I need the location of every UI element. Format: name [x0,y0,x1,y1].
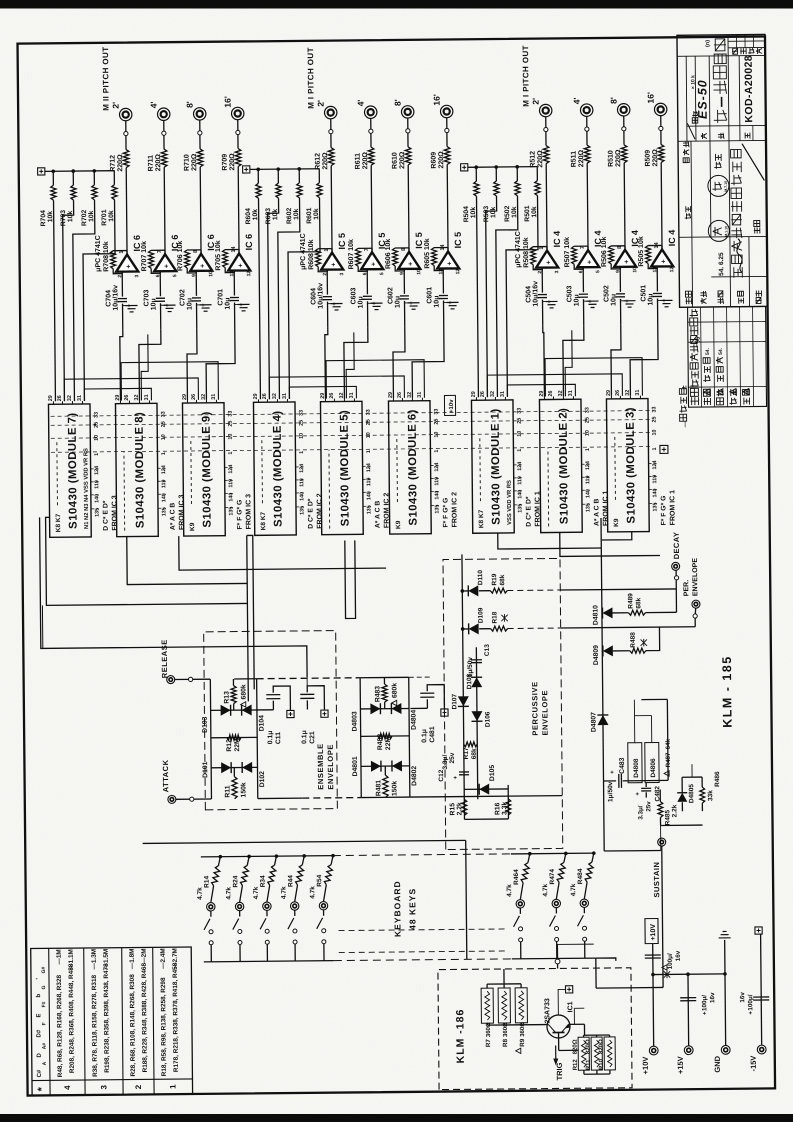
label R504 [463,206,477,223]
diode D109 [463,623,491,634]
junction box [755,927,762,935]
ensemble envelope dashed box [204,631,338,810]
svg-text:FROM IC 2: FROM IC 2 [451,492,458,528]
wire [306,646,308,686]
capacitor C503 10u [579,294,594,303]
svg-text:—1.8M: —1.8M [129,949,136,970]
wire [584,1070,610,1074]
resistor R604 10k [256,169,263,399]
label R512 [530,150,545,168]
svg-text:33: 33 [161,411,167,417]
op-amp IC6 unit 4 [228,245,252,276]
svg-text:S10430 (MODULE 4): S10430 (MODULE 4) [272,410,285,527]
svg-text:8': 8' [609,97,619,104]
svg-text:K9: K9 [395,520,402,529]
svg-text:54.: 54. [718,347,724,355]
label ES-50 [695,79,709,119]
resistor R712 220 [123,150,129,168]
label R14 [197,875,211,899]
wire trunk [602,532,632,540]
triangle mark [516,1048,521,1053]
svg-text:119: 119 [228,479,234,488]
svg-text:D103: D103 [202,716,209,733]
wire [675,570,677,589]
svg-text:D#: D# [36,1029,42,1037]
resistor R708 10k feedback [111,251,128,274]
svg-text:31: 31 [417,392,423,398]
ground [368,303,383,310]
svg-text:R484: R484 [577,868,584,884]
junction box [558,986,573,1015]
svg-text:R11: R11 [586,1059,592,1070]
resistor R607 10k feedback [355,248,372,271]
wire trunk [46,515,248,605]
label GND [713,1055,722,1072]
wire op-amp input [233,271,236,329]
switch pole [322,929,326,933]
resistor R14 4.7k [210,857,220,903]
module 4 bottom pin numbers [299,410,306,515]
svg-text:R505 10k: R505 10k [638,236,645,267]
svg-text:10μ: 10μ [433,295,440,307]
svg-text:A* A C B: A* A C B [374,501,381,529]
label R8 360 [502,1022,509,1047]
wire trunk percussive [601,518,604,851]
resistor R711 220 [161,149,167,167]
svg-text:—1.5M: —1.5M [103,949,110,970]
wire [546,1024,548,1026]
svg-text:R705 10k: R705 10k [215,240,222,271]
label +15V [676,1056,685,1074]
switch pole [265,929,269,933]
svg-text:C481: C481 [429,726,436,743]
label R709 [222,153,237,171]
svg-text:R54: R54 [316,874,323,886]
ground [328,304,343,311]
svg-text:26: 26 [57,395,63,401]
svg-text:R198, R238, R358, R398, R438,: R198, R238, R358, R398, R438, R478 [103,963,111,1073]
svg-text:—1.1M: —1.1M [68,949,75,970]
svg-text:R12: R12 [573,1059,579,1071]
svg-text:119: 119 [434,477,440,486]
ground [658,300,673,307]
label SUSTAIN [652,862,661,898]
label pitch out [521,45,531,107]
resistor R502 10k [495,167,522,397]
label R503 [483,206,497,223]
wire ATTACK rail dashed [302,797,410,798]
wire [568,1024,584,1035]
label R484 [570,868,584,896]
wire cell line C [360,707,409,709]
label D101 [202,761,209,778]
module 6 signal labels [442,492,458,528]
wire cell top edge [210,679,211,799]
svg-text:26: 26 [124,395,130,401]
wire cell2 rails [409,677,465,797]
svg-text:KLM -186: KLM -186 [454,1009,467,1064]
module 8 signal labels [169,495,185,531]
svg-text:10μ: 10μ [224,297,231,309]
wire [556,941,558,958]
svg-text:S10430 (MODULE 2): S10430 (MODULE 2) [558,408,571,525]
wire keyboard bus [511,852,593,855]
module 8 bottom pin numbers [161,411,168,516]
label D4809 [593,645,600,665]
svg-text:29: 29 [48,395,54,401]
svg-text:+: + [408,262,415,266]
label D4801 [352,756,359,776]
wire op-amp input [326,270,329,328]
label C12 [438,752,456,781]
node [236,130,240,134]
svg-text:R512: R512 [530,151,537,168]
wire [596,957,663,988]
svg-text:100μ/: 100μ/ [701,995,708,1011]
capacitor C501 10u [653,293,668,302]
svg-text:R7: R7 [485,1039,492,1048]
key contact [235,902,243,910]
svg-text:C12: C12 [438,769,445,781]
op-amp IC5 unit 3 [398,248,422,275]
svg-text:31: 31 [282,393,288,399]
svg-text:10μ: 10μ [647,293,654,305]
svg-text:S10430 (MODULE 5): S10430 (MODULE 5) [339,410,352,527]
svg-text:D4804: D4804 [411,710,418,730]
wire RELEASE rail dashed [257,677,409,678]
svg-text:D107: D107 [451,693,458,709]
wire cell line A [361,765,410,767]
svg-text:820Ω: 820Ω [599,1039,605,1054]
diode D4802 [392,760,402,771]
wire to module pin [393,327,406,398]
module 3 signal labels [660,490,676,526]
wire attack rail lower [464,795,562,798]
svg-text:+: + [587,260,594,264]
svg-text:F#: F# [41,1001,47,1007]
svg-text:R18, R58, R98, R138, R258, R: R18, R58, R98, R138, R258, R298 [160,977,168,1076]
label R603 [265,208,279,225]
junction dots power [651,972,727,976]
label PER ENVELOPE [683,558,699,597]
label C502 [603,285,617,306]
module 8 output pins 29 26 32 31 [115,394,150,403]
svg-text:100μ/: 100μ/ [747,994,754,1010]
diode D4803 [370,703,380,714]
resistor R707 10k feedback [149,250,166,273]
resistor R13 680k [231,679,236,710]
TRIG arrow [553,1045,558,1065]
resistor R602 10k [277,169,304,399]
power jack +15V [684,1046,693,1055]
wire keyboard arm dashed [339,929,509,953]
label 2' [316,100,326,107]
label 2SA733 [544,998,551,1023]
resistor R505 10k feedback [645,245,662,268]
svg-text:IC 5: IC 5 [453,232,463,249]
label R704 [40,210,54,227]
key contact [319,901,327,909]
switch pole [238,930,242,934]
switch arm [288,910,295,929]
wire ladder bus [45,170,114,173]
module 6 output pins 29 26 32 31 [388,392,423,401]
label C601 [426,287,440,308]
label D110 [477,570,484,586]
svg-text:5: 5 [172,274,178,277]
svg-text:KOD-A20028: KOD-A20028 [743,55,756,123]
resistor R474 4.7k [556,853,566,899]
svg-text:10k: 10k [108,210,115,222]
svg-text:-15V: -15V [749,1056,758,1072]
node [585,127,589,131]
svg-text:R482: R482 [377,734,384,751]
svg-text:31: 31 [77,395,83,401]
wire long bus [143,840,467,962]
svg-text:R511: R511 [571,151,578,168]
output jack 8' [617,104,630,117]
svg-text:R707 10k: R707 10k [141,241,148,272]
node [189,677,193,681]
power jack +10V [649,1046,658,1055]
svg-text:R24: R24 [232,875,239,887]
label 2' [111,102,121,109]
svg-text:124: 124 [299,464,305,473]
capacitor C483 1u [603,770,634,788]
svg-text:R506 10k: R506 10k [601,236,608,267]
wire [272,701,274,710]
svg-text:25v: 25v [645,801,652,812]
svg-text:31: 31 [211,394,217,400]
label TRIG [555,1062,564,1080]
wire +15V rail [687,974,690,1046]
wire [487,969,521,988]
svg-text:220Ω: 220Ω [322,152,329,170]
output jack 4' [364,106,377,119]
svg-text:124: 124 [517,462,523,471]
label C481 [421,726,436,743]
resistor R510 220 [621,145,627,163]
wire rail A [462,554,465,819]
junction dots [256,167,301,171]
svg-text:M I PITCH OUT: M I PITCH OUT [521,45,531,107]
switch pole [238,941,242,945]
wire trunk [179,534,386,570]
svg-text:IC 4: IC 4 [552,231,562,248]
svg-text:22M: 22M [385,736,392,750]
key contact [207,903,215,911]
svg-text:119: 119 [161,479,167,488]
key contact [552,899,560,907]
resistor R486 33k [700,777,705,811]
wire +10V rail [652,944,655,1047]
label R701 [101,209,115,226]
ground [621,301,636,308]
svg-text:10k: 10k [272,209,279,221]
label C704 [105,285,119,311]
svg-text:2SA733: 2SA733 [544,998,551,1023]
switch arm [513,908,520,927]
svg-text:C702: C702 [179,289,186,306]
wire cell bottom edge [257,679,258,799]
wire keyboard return bus [204,961,334,962]
svg-text:A* A C B: A* A C B [169,503,176,531]
label 8' [393,99,403,106]
wire to module pin [344,327,369,398]
wire op-amp output [164,120,165,255]
svg-text:R483: R483 [374,686,381,703]
power jack -15V [757,1045,766,1054]
label D4803 [351,711,358,731]
svg-text:10k: 10k [47,211,54,223]
label D109 [477,607,484,623]
module bus lines 1 10 25 33 / 135 140 119 124 [51,410,659,509]
svg-text:10μ/16v: 10μ/16v [532,281,539,307]
svg-text:R188, R228, R348, R388, R428,: R188, R228, R348, R388, R428, R468 [141,963,149,1073]
svg-text:K9: K9 [613,518,620,527]
svg-text:K8 K7: K8 K7 [478,509,485,528]
diode D4801 [371,761,381,772]
svg-text:S10430 (MODULE 8): S10430 (MODULE 8) [134,412,147,529]
svg-text:119: 119 [366,478,372,487]
wire to module pin [187,329,198,400]
svg-text:D C* E D*: D C* E D* [102,500,109,531]
svg-text:D4805: D4805 [688,784,695,804]
output jack 8' [193,108,206,121]
svg-text:D105: D105 [489,765,496,782]
svg-text:M.1.10: M.1.10 [724,226,728,237]
wire to module pin [611,325,622,396]
label 8' [185,101,195,108]
svg-text:C603: C603 [350,288,357,305]
junction box [441,709,448,716]
svg-text:R612: R612 [315,153,322,170]
svg-text:G#: G# [41,966,47,973]
svg-text:R208, R248, R368, R408, R448,: R208, R248, R368, R408, R448, R488 [68,963,76,1073]
svg-text:+15V: +15V [676,1056,685,1074]
label R11 820 [586,1039,592,1070]
svg-text:220Ω: 220Ω [155,154,162,172]
svg-text:68k: 68k [635,597,642,608]
wire [633,699,668,780]
stamp circle [708,220,729,241]
junction box [243,166,250,173]
label 8' [609,97,619,104]
svg-text:R38, R78, R118, R158, R278, R: R38, R78, R118, R158, R278, R318 [91,974,99,1076]
svg-text:26: 26 [615,390,621,396]
svg-text:33: 33 [585,407,591,413]
resistor R11 820 [591,1037,602,1070]
wire keyboard bus [201,856,333,857]
diode D108 [471,677,482,687]
svg-text:IC1: IC1 [567,1001,574,1012]
svg-text:8': 8' [185,101,195,108]
wire op-amp input [195,271,198,329]
op-amp IC6 unit 2 [154,250,178,277]
wire op-amp output [238,120,239,255]
resistor value table [31,947,193,1096]
PER ENVELOPE jack [692,600,700,608]
svg-text:R610: R610 [392,152,399,169]
resistor R706 10k feedback [185,250,202,273]
ground [197,305,212,312]
svg-text:S10430 (MODULE 6): S10430 (MODULE 6) [407,409,420,526]
module 2 signal labels [593,490,609,526]
wire op-amp output [371,118,372,253]
resistor R603 10k [267,169,283,399]
junction dots [51,169,96,173]
wire cell line B [361,735,410,737]
label R710 [184,153,199,171]
label R44 [280,875,294,899]
title block small labels [682,39,765,304]
svg-text:124: 124 [434,463,440,472]
wire cell bottom edge [409,677,410,797]
svg-text:C502: C502 [603,285,610,302]
resistor R610 220 [405,147,411,165]
label D102 [259,771,266,788]
wire cell line C [211,709,257,711]
wire op-amp input [121,272,124,330]
label R483 [374,683,398,703]
label PERCUSSIVE ENVELOPE [530,681,550,736]
wire [596,958,616,961]
label R611 [355,152,370,170]
wire ladder bus [468,166,537,169]
svg-text:R48, R68, R128, R168, R268, R: R48, R68, R128, R168, R268, R328 [56,974,64,1077]
svg-text:+10v: +10v [449,399,455,413]
svg-text:1: 1 [366,450,372,453]
label IC 5 [453,232,463,249]
resistor R464 4.7k [520,854,530,900]
svg-text:68k: 68k [471,748,478,759]
svg-text:12: 12 [246,271,252,277]
svg-text:+: + [635,792,641,796]
svg-text:K8 K7: K8 K7 [55,513,62,532]
resistor R606 10k feedback [392,248,409,271]
node [544,127,548,131]
diode D4804 [391,703,401,714]
switch arm [204,911,211,930]
svg-text:220Ω: 220Ω [399,151,406,169]
label 16' [223,96,233,108]
capacitor C702 10u [192,298,207,307]
wire op-amp output [200,120,201,255]
key contact [516,900,524,908]
svg-text:2: 2 [134,1084,143,1089]
svg-text:33: 33 [299,410,305,416]
node [445,128,449,132]
svg-text:±: ± [681,385,688,389]
svg-text:26: 26 [262,393,268,399]
wire dashed [508,627,561,630]
svg-text:D101: D101 [202,761,209,778]
svg-text:1: 1 [517,449,523,452]
label R703 [60,210,74,227]
svg-text:D102: D102 [259,771,266,788]
wire sustain [662,846,663,987]
svg-text:R509: R509 [645,150,652,167]
wire op-amp input [403,269,406,327]
svg-text:10μ: 10μ [573,294,580,306]
node [329,129,333,133]
label R605 [424,238,431,269]
svg-text:220Ω: 220Ω [438,151,445,169]
label 48 KEYS [407,888,417,930]
output jack 8' [401,106,414,119]
IC module S10430 MODULE 2 [539,399,582,532]
label IC 4 [552,231,562,248]
